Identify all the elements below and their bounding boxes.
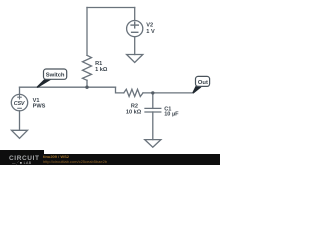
flag Out box <box>196 76 210 86</box>
svg-text:Switch: Switch <box>46 72 65 78</box>
ground below V2 <box>127 55 143 63</box>
wire V1 bottom <box>19 111 21 131</box>
wire V1 top <box>19 87 21 94</box>
node junction dot R2/C1 <box>151 91 154 94</box>
resistor R2 <box>124 89 143 96</box>
svg-text:10 kΩ: 10 kΩ <box>126 110 142 116</box>
wire main horizontal <box>20 86 116 88</box>
voltage source V1 <box>11 94 27 110</box>
watermark bar <box>0 154 220 166</box>
voltage source V2 <box>127 21 143 37</box>
V2 minus sign <box>131 31 139 33</box>
watermark text line 2 <box>43 159 107 164</box>
wire R1 top drop <box>86 8 88 56</box>
svg-text:R2: R2 <box>131 103 138 109</box>
svg-text:V2: V2 <box>146 22 153 28</box>
wire step down <box>116 87 124 93</box>
ground below V1 <box>12 130 28 138</box>
wire top horizontal <box>87 7 135 9</box>
V1 plus sign <box>17 96 22 98</box>
watermark text line 1 <box>43 154 69 159</box>
wire C1 bottom <box>152 112 154 140</box>
flag Switch box <box>44 69 67 79</box>
V2 plus sign <box>130 24 139 26</box>
svg-text:PWS: PWS <box>33 104 46 110</box>
wire R1 bottom <box>86 80 88 87</box>
svg-text:Out: Out <box>198 80 208 86</box>
wire V2 bottom <box>134 37 136 55</box>
svg-text:1 kΩ: 1 kΩ <box>95 67 108 73</box>
ground below C1 <box>145 140 161 148</box>
svg-text:1 V: 1 V <box>146 29 155 35</box>
flag Out tail <box>192 85 201 94</box>
watermark logo badge <box>0 150 44 165</box>
capacitor C1 bottom plate <box>145 111 161 113</box>
svg-text:CSV: CSV <box>14 101 25 107</box>
wire V2 top drop <box>134 8 136 21</box>
wire C1 top <box>152 93 154 109</box>
resistor R1 <box>83 55 92 80</box>
svg-text:10 µF: 10 µF <box>164 112 179 118</box>
capacitor C1 top plate <box>145 107 161 109</box>
V1 minus sign <box>17 107 22 109</box>
logo CircuitLab <box>9 155 40 162</box>
flag Switch tail <box>36 78 51 88</box>
wire R2 right <box>143 92 193 94</box>
node junction dot R1/main wire <box>85 86 88 89</box>
